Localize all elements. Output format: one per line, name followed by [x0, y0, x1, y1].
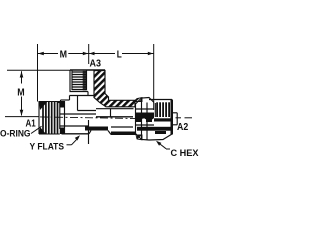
- svg-text:A2: A2: [177, 122, 189, 133]
- svg-text:C HEX: C HEX: [171, 148, 200, 159]
- svg-text:O-RING: O-RING: [0, 128, 31, 139]
- svg-text:M: M: [60, 49, 67, 60]
- svg-text:M: M: [17, 87, 24, 98]
- svg-text:Y FLATS: Y FLATS: [30, 141, 65, 151]
- svg-text:L: L: [117, 49, 122, 60]
- svg-text:A3: A3: [90, 57, 102, 69]
